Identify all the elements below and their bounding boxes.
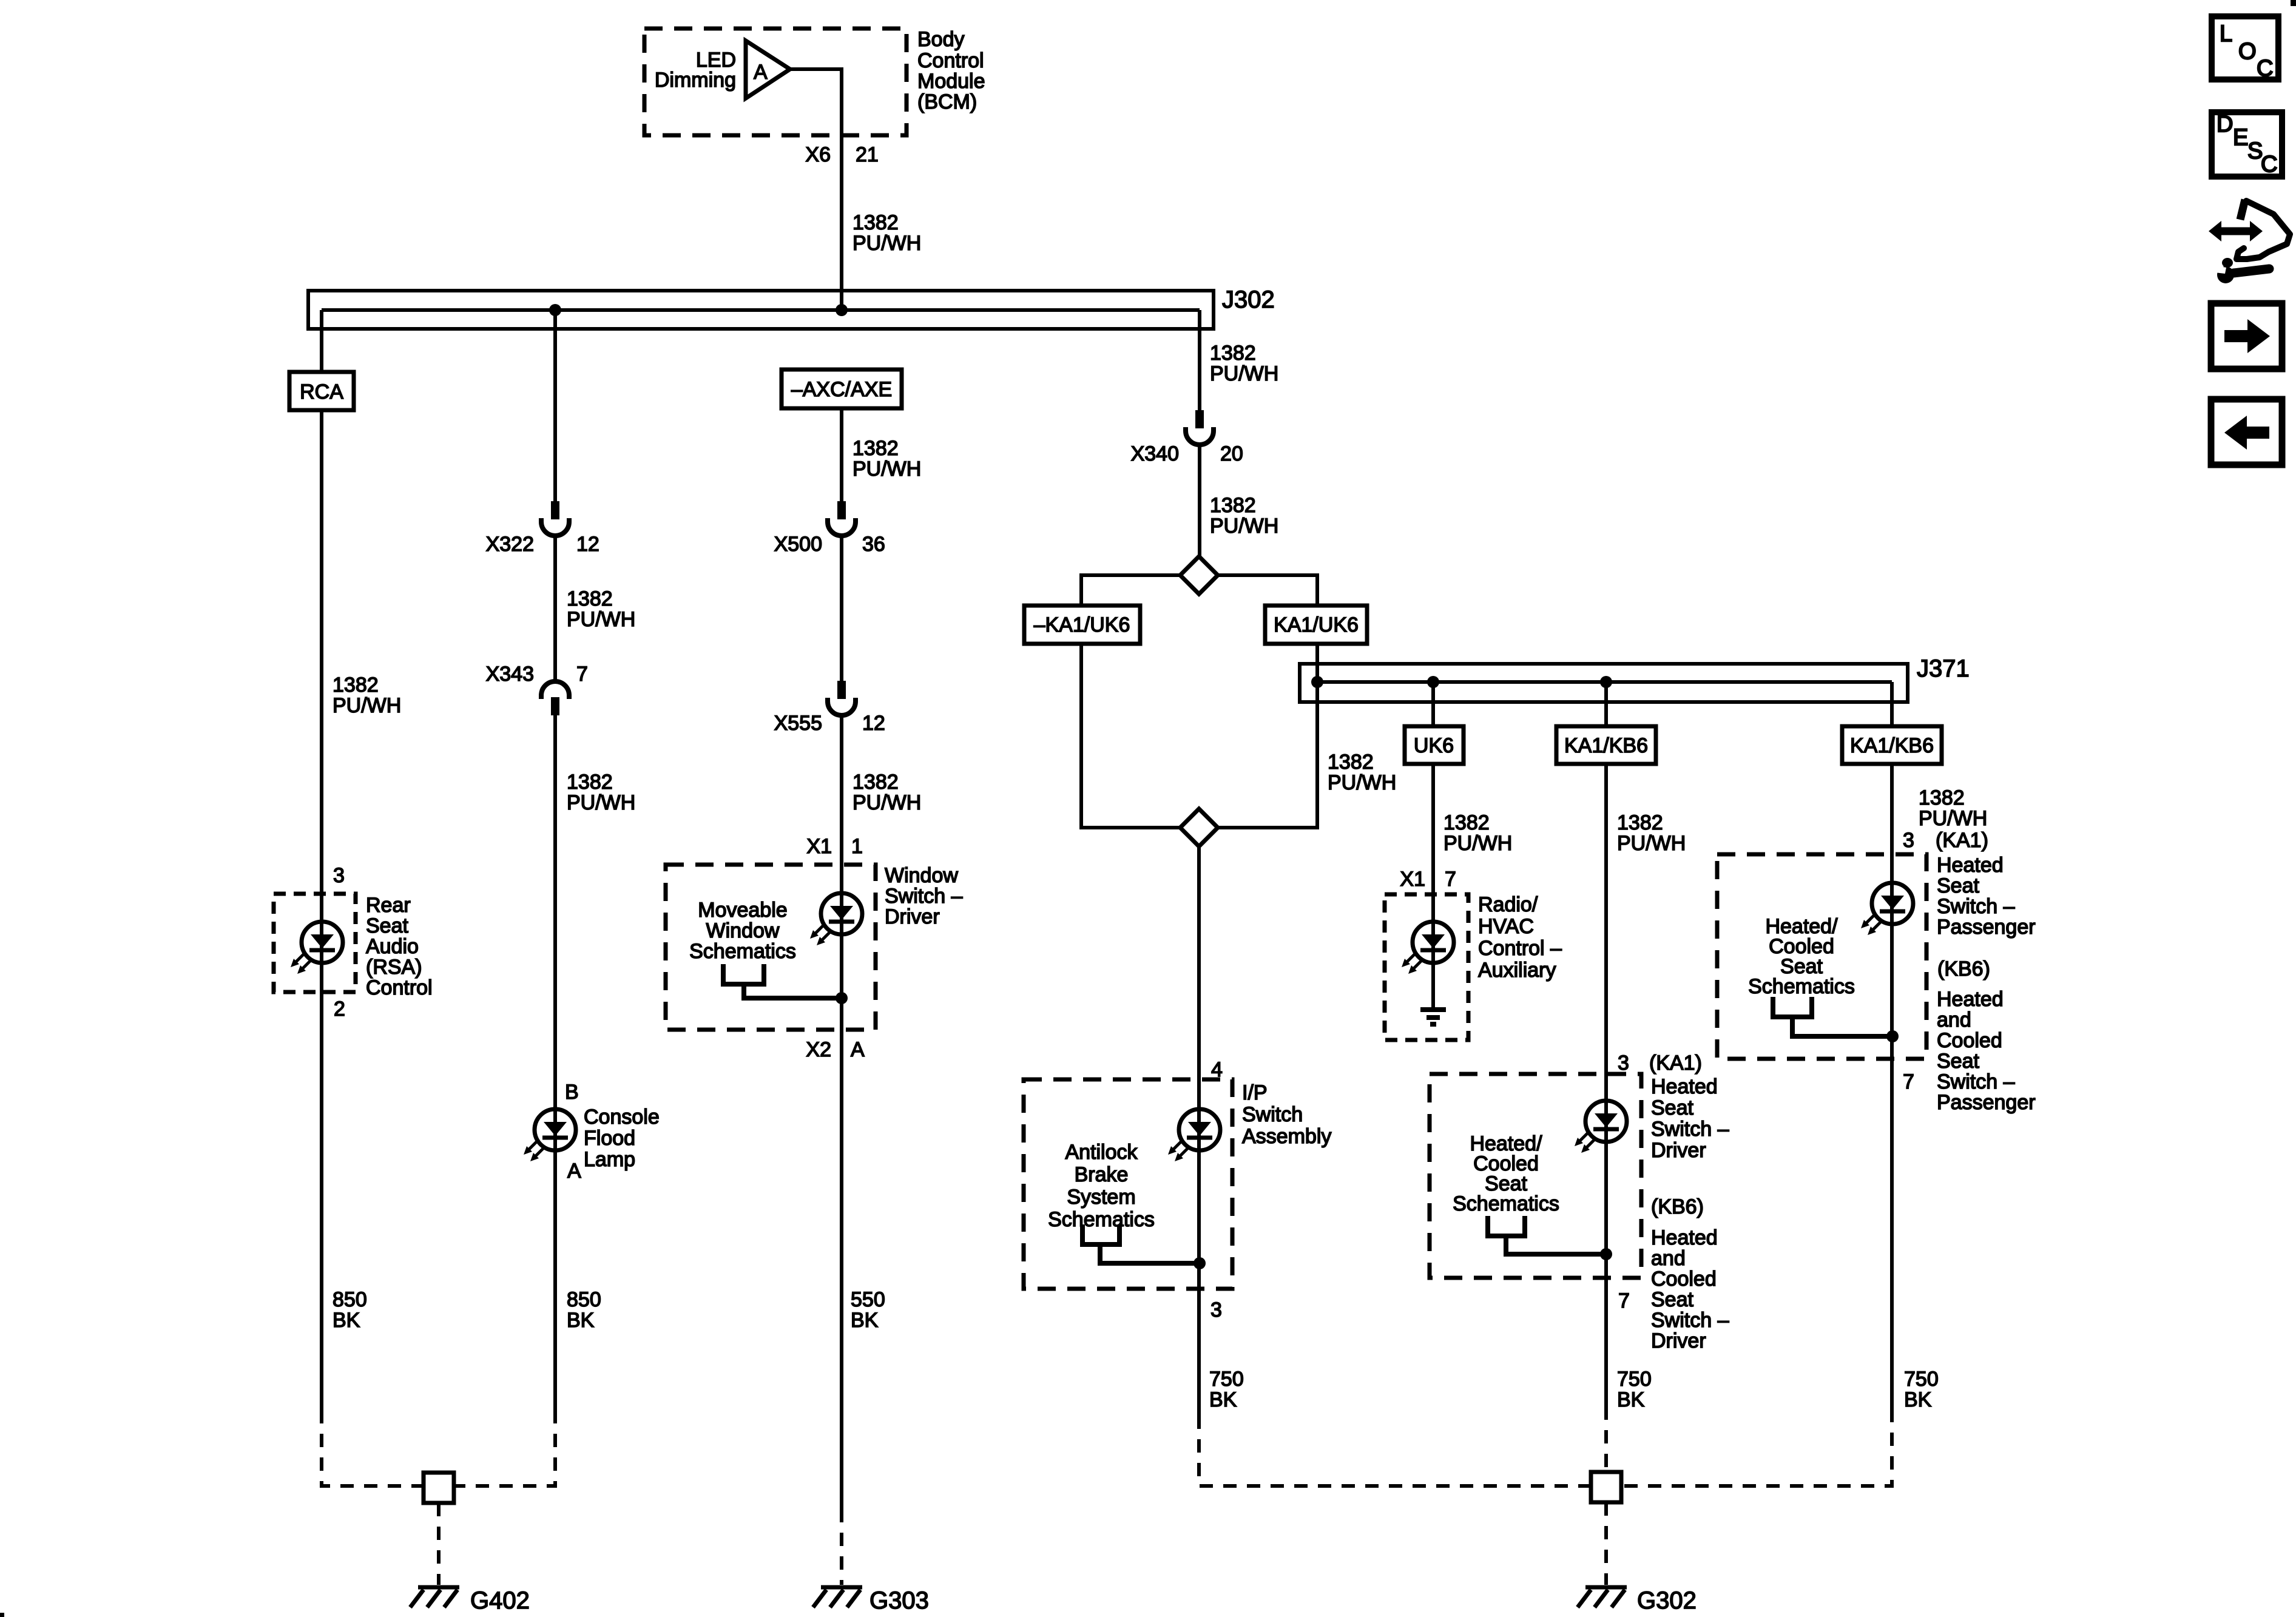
wire from X555 into Window Switch Driver xyxy=(840,716,843,1509)
svg-text:A: A xyxy=(567,1160,581,1183)
option code box RCA xyxy=(289,372,354,410)
inline connector X555 symbol xyxy=(828,681,856,715)
svg-text:Control: Control xyxy=(917,49,984,72)
dashed ground wire to G303 xyxy=(840,1509,843,1585)
svg-text:X6: X6 xyxy=(805,143,831,166)
svg-text:Seat: Seat xyxy=(1651,1288,1693,1311)
svg-text:1382: 1382 xyxy=(853,211,899,234)
svg-text:550: 550 xyxy=(851,1288,885,1311)
svg-text:2: 2 xyxy=(334,998,345,1021)
dashed ground wire from RSA control to G402 splice xyxy=(322,1410,424,1486)
svg-text:Cooled: Cooled xyxy=(1651,1268,1717,1291)
svg-text:X2: X2 xyxy=(806,1038,831,1061)
junction dot at (1977,2082) xyxy=(1194,1257,1206,1269)
svg-text:7: 7 xyxy=(1618,1289,1630,1312)
wire from J371 down to KA1/KB6 option box (driver) xyxy=(1604,682,1608,726)
svg-text:PU/WH: PU/WH xyxy=(1617,832,1686,855)
svg-text:and: and xyxy=(1937,1008,1971,1031)
svg-text:HVAC: HVAC xyxy=(1478,915,1534,938)
option code box -AXC/AXE xyxy=(782,370,902,408)
svg-text:Driver: Driver xyxy=(885,905,940,928)
junction dot at (2647,1124) xyxy=(1600,676,1612,688)
wire from RCA box down to Rear Seat Audio control xyxy=(320,410,323,1410)
option code box UK6 xyxy=(1405,726,1464,764)
svg-text:Seat: Seat xyxy=(1937,874,1979,897)
wire from KA1/KB6 box into Heated Seat Switch Passenger xyxy=(1890,764,1894,1409)
svg-text:BK: BK xyxy=(333,1309,360,1332)
svg-text:Driver: Driver xyxy=(1651,1139,1706,1162)
svg-text:7: 7 xyxy=(576,663,588,686)
svg-text:Driver: Driver xyxy=(1651,1329,1706,1352)
svg-text:PU/WH: PU/WH xyxy=(853,232,921,255)
svg-text:X1: X1 xyxy=(806,835,832,858)
svg-text:Switch –: Switch – xyxy=(1651,1309,1729,1332)
dashed wire from splice square down to ground G302 xyxy=(1604,1502,1608,1585)
svg-text:PU/WH: PU/WH xyxy=(333,694,401,717)
LED indicator lamp inside IP Switch Assembly xyxy=(1168,1109,1220,1161)
svg-text:Schematics: Schematics xyxy=(1048,1208,1155,1231)
svg-text:Schematics: Schematics xyxy=(1748,975,1855,998)
svg-text:E: E xyxy=(2233,125,2248,150)
wire from UK6 box into Radio/HVAC Control Auxiliary xyxy=(1431,764,1435,1010)
option split diamond (top) xyxy=(1180,556,1218,594)
wire from J371 right end down to KA1/KB6 option box (passenger) xyxy=(1890,682,1894,726)
svg-text:–AXC/AXE: –AXC/AXE xyxy=(791,378,892,401)
svg-text:1382: 1382 xyxy=(567,587,613,610)
svg-text:Heated: Heated xyxy=(1937,854,2004,877)
inline connector X340 symbol xyxy=(1186,410,1214,445)
wire from J371 down to UK6 option box xyxy=(1431,682,1435,726)
svg-text:(BCM): (BCM) xyxy=(917,90,977,113)
wire from X500 to X555 xyxy=(840,536,843,681)
svg-text:7: 7 xyxy=(1903,1070,1914,1093)
svg-text:Switch: Switch xyxy=(1242,1103,1303,1126)
wire from -KA1/UK6 box down and right to merge diamond xyxy=(1081,644,1180,828)
svg-text:750: 750 xyxy=(1904,1368,1939,1391)
svg-text:A: A xyxy=(851,1038,865,1061)
svg-text:BK: BK xyxy=(851,1309,879,1332)
svg-text:PU/WH: PU/WH xyxy=(853,791,921,814)
svg-text:BK: BK xyxy=(1904,1388,1932,1411)
dashed ground wire from passenger switch to G302 splice xyxy=(1621,1409,1892,1486)
svg-text:1382: 1382 xyxy=(567,771,613,794)
svg-text:Rear: Rear xyxy=(366,894,411,917)
svg-text:36: 36 xyxy=(862,533,885,556)
svg-text:20: 20 xyxy=(1220,442,1243,465)
svg-text:L: L xyxy=(2220,21,2232,47)
splice junction square above G302 xyxy=(1591,1472,1621,1502)
LED indicator lamp inside Heated Seat Switch Driver xyxy=(1575,1101,1627,1153)
svg-text:Seat: Seat xyxy=(366,914,408,937)
buffer/driver triangle A inside BCM xyxy=(746,41,790,98)
svg-text:12: 12 xyxy=(576,533,599,556)
LED indicator lamp inside Heated Seat Switch Passenger xyxy=(1861,883,1913,935)
icon button next arrow xyxy=(2211,303,2282,369)
wire from diamond to KA1/UK6 option box xyxy=(1218,575,1317,606)
svg-text:(KB6): (KB6) xyxy=(1651,1195,1704,1218)
dashed wire from splice square down to ground G402 xyxy=(437,1503,441,1585)
option code box KA1/UK6 xyxy=(1265,606,1367,644)
junction dot at (2171,1124) xyxy=(1311,676,1323,688)
svg-text:Control –: Control – xyxy=(1478,937,1562,960)
svg-text:Heated: Heated xyxy=(1651,1075,1718,1098)
svg-text:G302: G302 xyxy=(1637,1587,1697,1614)
svg-text:A: A xyxy=(754,61,768,84)
svg-text:Window: Window xyxy=(706,919,780,942)
svg-text:KA1/UK6: KA1/UK6 xyxy=(1274,613,1359,636)
svg-text:1382: 1382 xyxy=(1617,811,1663,834)
wire from merge diamond down to I/P Switch Assembly xyxy=(1197,846,1201,1416)
svg-text:Flood: Flood xyxy=(584,1127,635,1150)
internal ground symbol inside Radio/HVAC control xyxy=(1420,1010,1446,1024)
svg-text:G402: G402 xyxy=(470,1587,530,1614)
icon button DESC xyxy=(2212,112,2282,177)
svg-text:G303: G303 xyxy=(869,1587,929,1614)
svg-text:and: and xyxy=(1651,1247,1686,1270)
LED indicator lamp inside Console Flood Lamp xyxy=(524,1109,576,1161)
svg-text:D: D xyxy=(2217,112,2233,137)
svg-text:Switch –: Switch – xyxy=(885,885,963,908)
svg-text:Seat: Seat xyxy=(1651,1096,1693,1119)
svg-text:Audio: Audio xyxy=(366,935,419,958)
svg-text:X343: X343 xyxy=(486,663,534,686)
option code box KA1/KB6 (driver) xyxy=(1556,726,1656,764)
svg-text:Passenger: Passenger xyxy=(1937,1091,2036,1114)
wire from J302 right end down to X340 xyxy=(1198,310,1201,410)
component: Heated Seat Switch - Passenger dashed outline xyxy=(1717,854,1926,1059)
off-page reference symbol to Heated Cooled Seat Schematics xyxy=(1773,997,1893,1036)
svg-text:(KA1): (KA1) xyxy=(1936,829,1988,852)
junction dot at (915,511) xyxy=(549,304,561,316)
svg-text:C: C xyxy=(2261,152,2277,177)
svg-text:21: 21 xyxy=(856,143,879,166)
junction dot at (2647,2067) xyxy=(1600,1248,1612,1260)
option code box KA1/KB6 (passenger) xyxy=(1842,726,1942,764)
svg-text:750: 750 xyxy=(1209,1368,1244,1391)
svg-text:3: 3 xyxy=(1618,1052,1629,1075)
svg-text:Switch –: Switch – xyxy=(1651,1118,1729,1141)
wire from diamond to -KA1/UK6 option box xyxy=(1081,575,1180,606)
wire from X343 down to Console Flood Lamp xyxy=(553,715,557,1410)
svg-text:Control: Control xyxy=(366,976,433,999)
svg-text:Switch –: Switch – xyxy=(1937,895,2015,918)
junction dot at (3119,1708) xyxy=(1886,1030,1899,1042)
svg-text:BK: BK xyxy=(1209,1388,1237,1411)
svg-text:Window: Window xyxy=(885,864,958,887)
component: Heated Seat Switch - Driver dashed outline xyxy=(1430,1074,1641,1278)
svg-text:PU/WH: PU/WH xyxy=(567,791,635,814)
svg-text:X555: X555 xyxy=(774,712,822,735)
wire from -AXC/AXE box down to X500 xyxy=(840,408,843,501)
svg-text:3: 3 xyxy=(1210,1298,1222,1322)
component: Rear Seat Audio (RSA) Control dashed outline xyxy=(274,894,356,992)
svg-text:1382: 1382 xyxy=(853,771,899,794)
svg-text:Cooled: Cooled xyxy=(1937,1029,2002,1052)
svg-text:Heated: Heated xyxy=(1937,988,2004,1011)
module U1 Body Control Module (BCM) dashed outline xyxy=(644,29,907,135)
svg-text:Radio/: Radio/ xyxy=(1478,893,1538,916)
svg-text:12: 12 xyxy=(862,712,885,735)
svg-text:C: C xyxy=(2257,56,2273,81)
svg-text:1: 1 xyxy=(851,835,863,858)
svg-text:Schematics: Schematics xyxy=(1453,1192,1559,1215)
svg-text:7: 7 xyxy=(1445,868,1456,891)
svg-text:O: O xyxy=(2238,39,2257,64)
svg-text:Heated: Heated xyxy=(1651,1226,1718,1249)
junction dot at (2362,1124) xyxy=(1427,676,1439,688)
svg-text:(KA1): (KA1) xyxy=(1649,1052,1702,1075)
svg-text:Auxiliary: Auxiliary xyxy=(1478,959,1556,982)
page corner mark top right xyxy=(2291,0,2296,6)
svg-text:3: 3 xyxy=(333,864,345,887)
ground symbol G402 xyxy=(410,1587,459,1607)
component: Window Switch - Driver dashed outline xyxy=(666,865,876,1030)
junction dot at (1387,1645) xyxy=(836,992,848,1004)
svg-text:RCA: RCA xyxy=(300,380,343,403)
svg-text:Dimming: Dimming xyxy=(655,69,736,92)
svg-text:1382: 1382 xyxy=(1210,494,1256,517)
svg-text:PU/WH: PU/WH xyxy=(1328,771,1396,794)
svg-text:KA1/KB6: KA1/KB6 xyxy=(1564,734,1648,757)
dashed ground wire from driver switch to G302 splice xyxy=(1604,1406,1608,1472)
svg-text:(RSA): (RSA) xyxy=(366,956,422,979)
svg-text:X340: X340 xyxy=(1131,442,1179,465)
svg-text:1382: 1382 xyxy=(1443,811,1490,834)
svg-text:(KB6): (KB6) xyxy=(1937,957,1990,981)
LED indicator lamp inside Radio HVAC Control Auxiliary xyxy=(1402,922,1454,974)
ground symbol G303 xyxy=(813,1587,862,1607)
dashed ground wire from I/P switch assembly to G302 splice xyxy=(1199,1416,1591,1486)
svg-text:I/P: I/P xyxy=(1242,1081,1268,1104)
svg-text:Moveable: Moveable xyxy=(698,899,787,922)
svg-text:PU/WH: PU/WH xyxy=(853,457,921,481)
page corner mark bottom left xyxy=(0,1613,4,1617)
splice pack J302 outer housing xyxy=(308,291,1214,329)
svg-text:Assembly: Assembly xyxy=(1242,1125,1331,1148)
svg-text:Antilock: Antilock xyxy=(1065,1141,1138,1164)
ground symbol G302 xyxy=(1578,1587,1627,1607)
svg-text:1382: 1382 xyxy=(1919,786,1965,809)
svg-text:B: B xyxy=(565,1081,579,1104)
component: Radio/HVAC Control - Auxiliary dashed outline xyxy=(1385,894,1468,1040)
svg-text:Console: Console xyxy=(584,1106,660,1129)
splice junction square above G402 xyxy=(424,1473,454,1503)
svg-text:PU/WH: PU/WH xyxy=(1443,832,1512,855)
wire from J302 down to RCA option box xyxy=(320,310,323,372)
svg-text:J302: J302 xyxy=(1222,286,1275,313)
svg-text:1382: 1382 xyxy=(1328,751,1374,774)
svg-text:3: 3 xyxy=(1903,829,1914,852)
component: I/P Switch Assembly / ABS dashed outline xyxy=(1024,1079,1232,1289)
inline connector X343 symbol xyxy=(541,681,569,715)
icon button back arrow xyxy=(2211,399,2282,465)
option merge diamond (bottom) xyxy=(1180,809,1218,846)
svg-text:BK: BK xyxy=(1617,1388,1645,1411)
svg-text:850: 850 xyxy=(567,1288,601,1311)
wire from J302 splice down to X322 xyxy=(553,310,557,501)
wire from KA1/KB6 box into Heated Seat Switch Driver xyxy=(1604,764,1608,1406)
svg-text:1382: 1382 xyxy=(333,673,379,697)
svg-text:850: 850 xyxy=(333,1288,367,1311)
dashed ground wire from Console Flood Lamp to G402 splice xyxy=(454,1410,555,1486)
svg-text:750: 750 xyxy=(1617,1368,1652,1391)
svg-text:Body: Body xyxy=(917,28,965,51)
svg-text:1382: 1382 xyxy=(1210,342,1256,365)
svg-text:J371: J371 xyxy=(1917,655,1970,682)
inline connector X322 symbol xyxy=(541,501,569,536)
svg-text:Schematics: Schematics xyxy=(689,940,796,963)
svg-text:System: System xyxy=(1067,1186,1135,1209)
svg-text:–KA1/UK6: –KA1/UK6 xyxy=(1034,613,1130,636)
splice pack J371 outer housing xyxy=(1300,664,1908,702)
svg-text:Switch –: Switch – xyxy=(1937,1070,2015,1093)
svg-text:PU/WH: PU/WH xyxy=(1210,362,1278,385)
option code box -KA1/UK6 xyxy=(1024,606,1140,644)
svg-text:BK: BK xyxy=(567,1309,595,1332)
svg-text:X1: X1 xyxy=(1400,868,1425,891)
svg-text:X500: X500 xyxy=(774,533,822,556)
junction dot at (1387,511) xyxy=(836,304,848,316)
splice pack J371 internal bus wire xyxy=(1315,680,1892,684)
svg-text:Seat: Seat xyxy=(1937,1050,1979,1073)
svg-text:X322: X322 xyxy=(486,533,534,556)
svg-text:Lamp: Lamp xyxy=(584,1148,635,1171)
svg-text:Brake: Brake xyxy=(1075,1163,1129,1186)
wire from BCM output A down to splice J302 xyxy=(790,69,842,310)
off-page reference symbol to Moveable Window Schematics xyxy=(723,964,842,998)
splice pack J302 internal bus wire xyxy=(322,308,1200,312)
off-page reference symbol to Antilock Brake System Schematics xyxy=(1082,1224,1200,1263)
wire from X322 to X343 xyxy=(553,536,557,681)
svg-text:PU/WH: PU/WH xyxy=(567,608,635,631)
icon button LOC xyxy=(2212,16,2278,81)
wire from KA1/UK6 box down through J371 to merge diamond xyxy=(1218,644,1317,828)
LED indicator lamp inside Window Switch Driver xyxy=(810,893,862,945)
off-page reference symbol to Heated Cooled Seat Schematics xyxy=(1488,1216,1606,1254)
svg-text:Passenger: Passenger xyxy=(1937,916,2036,939)
icon hand with wrench and double arrow xyxy=(2209,200,2290,283)
wire from X340 down to option split diamond xyxy=(1198,445,1201,556)
svg-text:PU/WH: PU/WH xyxy=(1919,807,1987,830)
LED indicator lamp inside Rear Seat Audio Control xyxy=(291,922,343,974)
inline connector X500 symbol xyxy=(828,501,856,536)
svg-text:PU/WH: PU/WH xyxy=(1210,515,1278,538)
svg-text:Module: Module xyxy=(917,70,985,93)
svg-text:KA1/KB6: KA1/KB6 xyxy=(1850,734,1934,757)
svg-text:UK6: UK6 xyxy=(1414,734,1454,757)
svg-text:1382: 1382 xyxy=(853,437,899,460)
